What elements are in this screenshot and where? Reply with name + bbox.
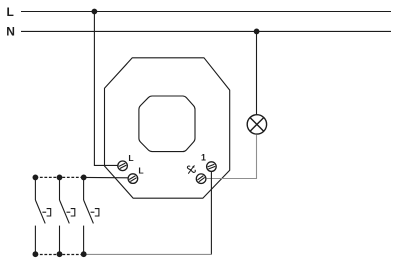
svg-text:1: 1 [201, 152, 206, 162]
wire bottom rail (dashed) [35, 253, 83, 255]
wire N line [21, 30, 391, 32]
terminal dimmed-phase output [196, 174, 206, 184]
pushbutton S1 [35, 177, 50, 254]
svg-text:L: L [7, 5, 14, 19]
dimmer output wave-arrow symbol [187, 166, 195, 173]
wire top pushbutton rail (dashed) [35, 176, 83, 178]
terminal L (lower left) [128, 174, 138, 184]
pushbutton S2 [60, 177, 75, 254]
wire top pushbutton rail to terminal L [84, 176, 128, 178]
terminal 1 (switched) [207, 162, 217, 172]
svg-text:N: N [6, 25, 15, 39]
terminal L (upper left) [118, 161, 128, 171]
svg-text:L: L [138, 166, 143, 176]
wire bottom rail to terminal 1 drop (grey) [84, 253, 212, 255]
wire L drop to dimmer [93, 12, 95, 166]
junction dots pushbutton rails [33, 175, 39, 181]
wire jog into terminal L [94, 164, 118, 166]
junction on N line [254, 29, 260, 35]
dimmer rotary knob inner octagon [139, 96, 195, 152]
lamp E1 [247, 115, 266, 134]
pushbutton S3 [84, 177, 99, 254]
svg-text:L: L [128, 153, 133, 163]
dimmer insert U1 outer octagon body [105, 58, 230, 198]
wire N drop to lamp [256, 31, 258, 114]
junction on L line [92, 9, 98, 15]
wire L line [21, 11, 391, 13]
wire terminal 1 down to pushbutton rail [210, 172, 212, 255]
wire lamp to dimmer output (grey) [206, 135, 256, 179]
